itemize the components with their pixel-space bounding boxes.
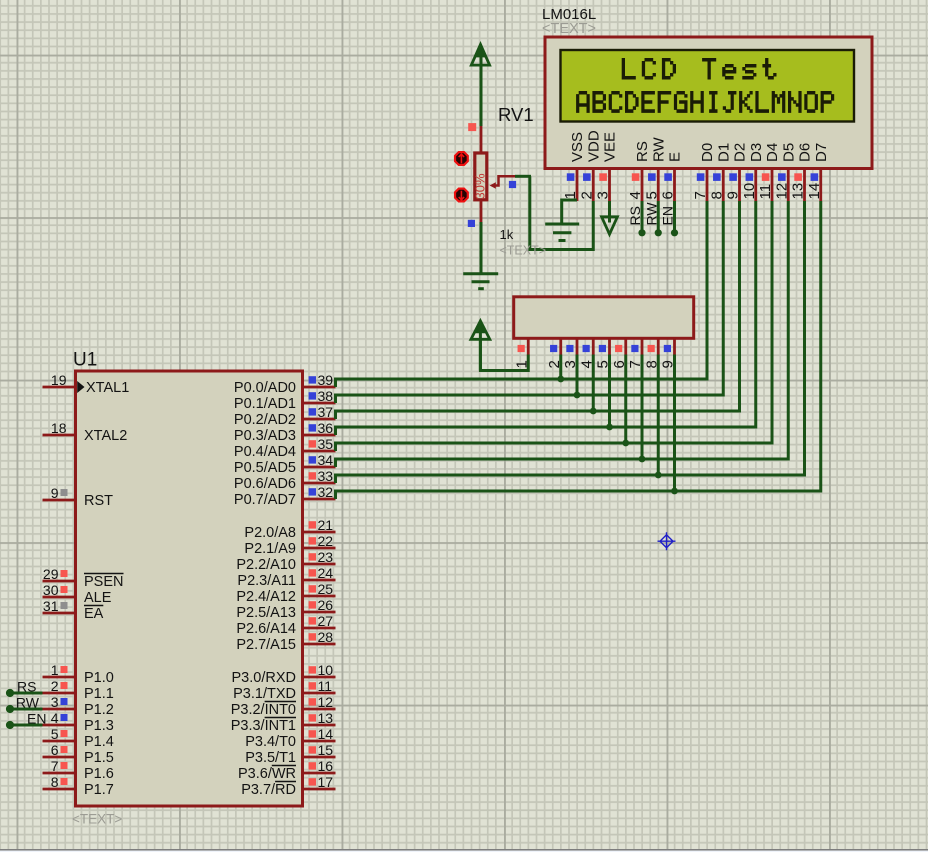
junction RP1 pin5/P0.3 bbox=[606, 424, 613, 431]
wire LCD pin 5 to RW terminal bbox=[657, 201, 660, 231]
svg-text:XTAL2: XTAL2 bbox=[84, 428, 127, 444]
svg-text:10: 10 bbox=[318, 662, 334, 678]
wire P0.1 to LCD D1 bbox=[336, 201, 724, 403]
svg-text:35: 35 bbox=[318, 436, 334, 452]
svg-text:26: 26 bbox=[318, 597, 334, 613]
U1 pin 18 (XTAL2) bbox=[43, 420, 128, 444]
U1 pin 4 (P1.3) bbox=[43, 710, 114, 734]
svg-text:RW: RW bbox=[650, 136, 667, 162]
wire RP1 pin2 to P0.0 net bbox=[559, 355, 562, 380]
RV1 wiper arrow bbox=[490, 176, 515, 189]
U1 pin 5 (P1.4) bbox=[43, 726, 114, 750]
U1 pin 9 (RST) bbox=[43, 485, 114, 509]
LCD pin 11 (D4) bbox=[757, 143, 781, 201]
svg-text:9: 9 bbox=[725, 191, 742, 199]
svg-text:D7: D7 bbox=[813, 143, 830, 162]
svg-text:13: 13 bbox=[790, 183, 807, 200]
U1 pin 1 (P1.0) bbox=[43, 662, 114, 686]
U1 pin 38 (P0.1/AD1) bbox=[234, 388, 336, 412]
svg-text:E: E bbox=[667, 152, 684, 162]
U1 pin 31 (EA) bbox=[43, 598, 104, 622]
svg-text:P0.6/AD6: P0.6/AD6 bbox=[234, 476, 296, 492]
svg-text:D6: D6 bbox=[797, 143, 814, 162]
LCD text row 1: LCD Test bbox=[622, 58, 777, 80]
svg-text:5: 5 bbox=[643, 191, 660, 199]
LCD pin 8 (D1) bbox=[708, 143, 732, 201]
U1 pin 22 (P2.1/A9) bbox=[244, 533, 335, 557]
svg-text:RW: RW bbox=[643, 202, 659, 226]
terminal dot EN (U1 side) bbox=[6, 721, 14, 729]
junction RP1 pin7/P0.5 bbox=[639, 456, 646, 463]
svg-text:38: 38 bbox=[318, 388, 334, 404]
wire RP1 pin9 to P0.7 net bbox=[673, 355, 676, 492]
svg-text:31: 31 bbox=[43, 598, 59, 614]
svg-text:U1: U1 bbox=[73, 350, 97, 371]
wire RV1 wiper bbox=[515, 175, 531, 178]
svg-text:D3: D3 bbox=[748, 143, 765, 162]
svg-text:P2.5/A13: P2.5/A13 bbox=[236, 605, 296, 621]
terminal dot RS bbox=[638, 229, 645, 236]
U1 pin 33 (P0.6/AD6) bbox=[234, 468, 336, 492]
svg-text:XTAL1: XTAL1 bbox=[86, 380, 129, 396]
svg-text:RST: RST bbox=[84, 493, 113, 509]
terminal dot RS (U1 side) bbox=[6, 689, 14, 697]
U1 pin 29 (PSEN) bbox=[43, 566, 124, 590]
svg-text:4: 4 bbox=[627, 191, 644, 199]
svg-text:36: 36 bbox=[318, 420, 334, 436]
U1 pin 19 (XTAL1) bbox=[43, 372, 130, 396]
svg-text:19: 19 bbox=[51, 372, 67, 388]
RV1 top pin bbox=[480, 126, 483, 152]
RV1 decrement button bbox=[455, 189, 468, 202]
ground (LCD VSS) bbox=[545, 224, 579, 241]
terminal dot RW bbox=[655, 229, 662, 236]
svg-text:VDD: VDD bbox=[585, 130, 602, 162]
LCD text row 2: ABCDEFGHIJKLMNOP bbox=[576, 91, 834, 113]
svg-text:8: 8 bbox=[708, 191, 725, 199]
svg-text:P2.3/A11: P2.3/A11 bbox=[237, 573, 296, 589]
svg-text:P3.3/INT1: P3.3/INT1 bbox=[231, 718, 296, 734]
svg-text:P1.6: P1.6 bbox=[84, 766, 114, 782]
LCD pin 10 (D3) bbox=[741, 143, 765, 201]
U1 pin 34 (P0.5/AD5) bbox=[234, 452, 336, 476]
wire P0.5 to LCD D5 bbox=[336, 201, 789, 467]
power terminal (RP1 pin1, arrow up) bbox=[471, 321, 490, 371]
svg-text:<TEXT>: <TEXT> bbox=[72, 812, 122, 827]
wire LCD VEE pin3 to terminal bbox=[608, 201, 611, 223]
svg-text:<TEXT>: <TEXT> bbox=[542, 21, 596, 37]
wire P0.3 to LCD D3 bbox=[336, 201, 756, 435]
U1 pin 25 (P2.4/A12) bbox=[236, 581, 335, 605]
svg-text:PSEN: PSEN bbox=[84, 574, 124, 590]
svg-text:30%: 30% bbox=[473, 173, 488, 199]
svg-text:27: 27 bbox=[318, 613, 334, 629]
LCD pin 5 (RW) bbox=[643, 136, 667, 201]
svg-text:30: 30 bbox=[43, 582, 59, 598]
wire RV1 bottom to ground bbox=[480, 222, 483, 274]
wire RW to U1 bbox=[10, 708, 43, 711]
U1 pin 30 (ALE) bbox=[43, 582, 112, 606]
junction RP1 pin4/P0.2 bbox=[590, 408, 597, 415]
terminal dot RW (U1 side) bbox=[6, 705, 14, 713]
RP1 pin 7 bbox=[627, 338, 644, 368]
svg-text:11: 11 bbox=[318, 678, 333, 694]
svg-text:RS: RS bbox=[627, 206, 643, 225]
svg-text:P1.1: P1.1 bbox=[84, 686, 114, 702]
logic state square (RV1 bottom) bbox=[468, 220, 475, 227]
svg-text:3: 3 bbox=[51, 694, 59, 710]
svg-text:28: 28 bbox=[318, 629, 334, 645]
svg-text:12: 12 bbox=[773, 183, 790, 200]
terminal dot EN bbox=[671, 229, 678, 236]
U1 pin 8 (P1.7) bbox=[43, 774, 114, 798]
U1 pin 28 (P2.7/A15) bbox=[236, 629, 335, 653]
svg-text:P2.7/A15: P2.7/A15 bbox=[236, 637, 296, 653]
svg-text:6: 6 bbox=[51, 742, 59, 758]
svg-text:P2.1/A9: P2.1/A9 bbox=[244, 541, 296, 557]
wire RP1 pin4 to P0.2 net bbox=[592, 355, 595, 412]
power terminal (RV1 top, arrow up) bbox=[471, 45, 489, 127]
svg-text:P3.2/INT0: P3.2/INT0 bbox=[231, 702, 296, 718]
svg-text:RS: RS bbox=[17, 679, 36, 695]
svg-text:15: 15 bbox=[318, 742, 334, 758]
logic state square (RV1 wiper) bbox=[509, 181, 516, 188]
svg-text:37: 37 bbox=[318, 404, 334, 420]
U1 pin 17 (P3.7/RD) bbox=[241, 774, 335, 798]
RP1 pin 4 bbox=[578, 338, 595, 368]
svg-text:VEE: VEE bbox=[602, 132, 619, 162]
svg-text:D2: D2 bbox=[732, 143, 749, 162]
U1 pin 16 (P3.6/WR) bbox=[238, 758, 336, 782]
svg-text:P3.0/RXD: P3.0/RXD bbox=[232, 670, 296, 686]
svg-text:D0: D0 bbox=[699, 143, 716, 162]
svg-text:P0.2/AD2: P0.2/AD2 bbox=[234, 412, 296, 428]
U1 pin 11 (P3.1/TXD) bbox=[233, 678, 335, 702]
junction RP1 pin6/P0.4 bbox=[622, 440, 629, 447]
LCD pin 4 (RS) bbox=[627, 141, 651, 201]
svg-text:P3.1/TXD: P3.1/TXD bbox=[233, 686, 296, 702]
U1 pin 37 (P0.2/AD2) bbox=[234, 404, 336, 428]
LCD pin 9 (D2) bbox=[725, 143, 749, 201]
svg-text:P3.7/RD: P3.7/RD bbox=[241, 782, 296, 798]
svg-text:4: 4 bbox=[51, 710, 59, 726]
svg-text:22: 22 bbox=[318, 533, 334, 549]
svg-text:12: 12 bbox=[318, 694, 334, 710]
svg-text:13: 13 bbox=[318, 710, 334, 726]
svg-text:6: 6 bbox=[660, 191, 677, 199]
wire LCD VDD pin2 to RV1 wiper net bbox=[530, 176, 593, 249]
wire LCD pin 4 to RS terminal bbox=[641, 201, 644, 231]
wire RP1 pin3 to P0.1 net bbox=[576, 355, 579, 396]
svg-text:21: 21 bbox=[318, 517, 334, 533]
svg-text:9: 9 bbox=[51, 485, 59, 501]
svg-text:P1.7: P1.7 bbox=[84, 782, 114, 798]
svg-text:5: 5 bbox=[51, 726, 59, 742]
svg-text:23: 23 bbox=[318, 549, 334, 565]
svg-text:P3.4/T0: P3.4/T0 bbox=[245, 734, 296, 750]
resistor pack RP1 body bbox=[514, 297, 694, 339]
LCD module LM016L bbox=[542, 6, 872, 169]
svg-text:P0.0/AD0: P0.0/AD0 bbox=[234, 380, 296, 396]
RP1 pin 3 bbox=[562, 338, 579, 368]
wire EN to U1 bbox=[10, 724, 43, 727]
wire RP1 pin7 to P0.5 net bbox=[641, 355, 644, 460]
wire RP1 pin6 to P0.4 net bbox=[624, 355, 627, 444]
svg-text:2: 2 bbox=[578, 191, 595, 199]
ground (RV1) bbox=[463, 274, 498, 289]
svg-text:39: 39 bbox=[318, 372, 334, 388]
svg-text:14: 14 bbox=[318, 726, 334, 742]
LCD screen bbox=[561, 50, 855, 122]
svg-text:ALE: ALE bbox=[84, 590, 112, 606]
wire RP1 pin5 to P0.3 net bbox=[608, 355, 611, 428]
U1 pin 3 (P1.2) bbox=[43, 694, 114, 718]
wire LCD pin 6 to EN terminal bbox=[673, 201, 676, 231]
power terminal (VEE, arrow down) bbox=[602, 217, 618, 234]
U1 pin 14 (P3.4/T0) bbox=[245, 726, 335, 750]
svg-text:32: 32 bbox=[318, 484, 334, 500]
svg-text:P0.1/AD1: P0.1/AD1 bbox=[234, 396, 296, 412]
RV1 increment button bbox=[455, 152, 468, 165]
U1 pin 39 (P0.0/AD0) bbox=[234, 372, 336, 396]
wire RP1 pin8 to P0.6 net bbox=[657, 355, 660, 476]
svg-text:P0.7/AD7: P0.7/AD7 bbox=[234, 492, 296, 508]
U1 pin 7 (P1.6) bbox=[43, 758, 114, 782]
U1 pin 13 (P3.3/INT1) bbox=[231, 710, 336, 734]
junction RP1 pin8/P0.6 bbox=[655, 472, 662, 479]
U1 pin 6 (P1.5) bbox=[43, 742, 114, 766]
svg-text:P2.2/A10: P2.2/A10 bbox=[236, 557, 296, 573]
U1 pin 26 (P2.5/A13) bbox=[236, 597, 335, 621]
RP1 pin 9 bbox=[660, 338, 677, 368]
wire RS to U1 bbox=[10, 692, 43, 695]
svg-text:11: 11 bbox=[757, 184, 774, 200]
U1 pin 36 (P0.3/AD3) bbox=[234, 420, 336, 444]
microcontroller U1 body bbox=[76, 371, 303, 806]
RV1 bottom pin bbox=[480, 201, 483, 223]
svg-text:P3.5/T1: P3.5/T1 bbox=[245, 750, 296, 766]
U1 pin 10 (P3.0/RXD) bbox=[232, 662, 336, 686]
svg-text:1: 1 bbox=[51, 662, 59, 678]
svg-text:29: 29 bbox=[43, 566, 59, 582]
svg-text:7: 7 bbox=[51, 758, 59, 774]
U1 pin 32 (P0.7/AD7) bbox=[234, 484, 336, 508]
svg-text:<TEXT>: <TEXT> bbox=[500, 244, 547, 258]
LCD pin 13 (D6) bbox=[790, 143, 814, 201]
svg-text:P1.0: P1.0 bbox=[84, 670, 114, 686]
wire P0.6 to LCD D6 bbox=[336, 201, 805, 483]
svg-text:25: 25 bbox=[318, 581, 334, 597]
svg-text:RW: RW bbox=[16, 695, 40, 711]
svg-text:8: 8 bbox=[51, 774, 59, 790]
svg-text:P0.5/AD5: P0.5/AD5 bbox=[234, 460, 296, 476]
junction RP1 pin2/P0.0 bbox=[557, 376, 564, 383]
svg-text:7: 7 bbox=[692, 191, 709, 199]
potentiometer RV1 body bbox=[475, 153, 487, 200]
RP1 pin 8 bbox=[643, 338, 660, 368]
svg-text:10: 10 bbox=[741, 183, 758, 200]
LCD body bbox=[545, 37, 872, 169]
wire LCD VSS pin1 to ground bbox=[562, 200, 577, 224]
wire P0.7 to LCD D7 bbox=[336, 201, 821, 499]
svg-text:14: 14 bbox=[806, 183, 823, 200]
svg-text:EN: EN bbox=[660, 206, 676, 225]
svg-text:RV1: RV1 bbox=[498, 104, 534, 125]
svg-text:16: 16 bbox=[318, 758, 334, 774]
svg-text:24: 24 bbox=[318, 565, 334, 581]
LCD pin 6 (E) bbox=[660, 152, 684, 201]
LCD pin 14 (D7) bbox=[806, 143, 830, 201]
svg-text:3: 3 bbox=[595, 191, 612, 199]
svg-text:P2.6/A14: P2.6/A14 bbox=[236, 621, 296, 637]
svg-text:1: 1 bbox=[562, 191, 579, 199]
wire P0.4 to LCD D4 bbox=[336, 201, 773, 451]
svg-text:P1.2: P1.2 bbox=[84, 702, 114, 718]
junction RP1 pin9/P0.7 bbox=[671, 488, 678, 495]
LCD pin 7 (D0) bbox=[692, 143, 716, 201]
LCD pin 1 (VSS) bbox=[562, 132, 586, 201]
svg-text:P2.0/A8: P2.0/A8 bbox=[244, 525, 296, 541]
LCD pin 3 (VEE) bbox=[595, 132, 619, 201]
svg-text:P1.5: P1.5 bbox=[84, 750, 114, 766]
U1 pin 2 (P1.1) bbox=[43, 678, 114, 702]
svg-text:P0.4/AD4: P0.4/AD4 bbox=[234, 444, 296, 460]
svg-text:2: 2 bbox=[51, 678, 59, 694]
wire P0.2 to LCD D2 bbox=[336, 201, 740, 419]
RP1 pin 6 bbox=[611, 338, 628, 368]
svg-text:P0.3/AD3: P0.3/AD3 bbox=[234, 428, 296, 444]
wire P0.0 to LCD D0 bbox=[336, 201, 708, 387]
svg-text:P2.4/A12: P2.4/A12 bbox=[236, 589, 296, 605]
RP1 pin 5 bbox=[595, 338, 612, 368]
svg-text:D1: D1 bbox=[715, 143, 732, 162]
U1 pin 24 (P2.3/A11) bbox=[237, 565, 335, 589]
RP1 pin 1 bbox=[513, 338, 530, 368]
U1 pin 12 (P3.2/INT0) bbox=[231, 694, 336, 718]
RP1 pin 2 bbox=[546, 338, 563, 368]
U1 pin 27 (P2.6/A14) bbox=[236, 613, 335, 637]
svg-text:EA: EA bbox=[84, 606, 104, 622]
U1 pin 15 (P3.5/T1) bbox=[245, 742, 335, 766]
svg-text:EN: EN bbox=[27, 711, 46, 727]
LCD pin 2 (VDD) bbox=[578, 130, 602, 201]
U1 pin 21 (P2.0/A8) bbox=[244, 517, 335, 541]
svg-text:D5: D5 bbox=[780, 143, 797, 162]
svg-text:P1.3: P1.3 bbox=[84, 718, 114, 734]
svg-text:18: 18 bbox=[51, 420, 67, 436]
svg-text:17: 17 bbox=[318, 774, 334, 790]
LCD pin 12 (D5) bbox=[773, 143, 797, 201]
wire RP1 pin1 to power bbox=[480, 339, 528, 371]
svg-text:D4: D4 bbox=[764, 143, 781, 162]
U1 pin 23 (P2.2/A10) bbox=[236, 549, 335, 573]
logic state square (RV1 top pin) bbox=[468, 123, 476, 131]
svg-text:33: 33 bbox=[318, 468, 334, 484]
svg-text:1k: 1k bbox=[500, 227, 514, 242]
svg-text:P3.6/WR: P3.6/WR bbox=[238, 766, 296, 782]
origin marker bbox=[658, 532, 676, 550]
svg-text:P1.4: P1.4 bbox=[84, 734, 114, 750]
U1 pin 35 (P0.4/AD4) bbox=[234, 436, 336, 460]
svg-text:RS: RS bbox=[634, 141, 651, 162]
junction RP1 pin3/P0.1 bbox=[574, 392, 581, 399]
svg-text:VSS: VSS bbox=[569, 132, 586, 162]
svg-text:34: 34 bbox=[318, 452, 334, 468]
XTAL1 clock arrow bbox=[77, 381, 84, 393]
